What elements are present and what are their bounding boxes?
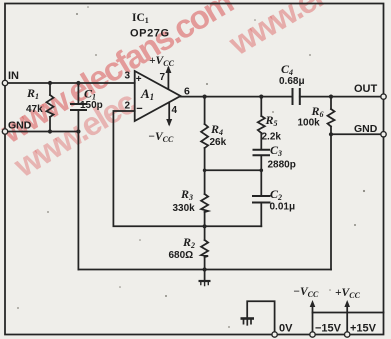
svg-text:6: 6 bbox=[184, 86, 190, 98]
svg-text:330k: 330k bbox=[173, 203, 196, 214]
svg-text:3: 3 bbox=[125, 71, 131, 82]
svg-text:26k: 26k bbox=[210, 137, 227, 148]
svg-text:2880p: 2880p bbox=[268, 160, 296, 171]
svg-text:100k: 100k bbox=[298, 118, 321, 129]
svg-text:GND: GND bbox=[354, 123, 378, 135]
svg-text:IN: IN bbox=[8, 70, 19, 82]
svg-text:−15V: −15V bbox=[315, 323, 342, 335]
svg-text:0V: 0V bbox=[279, 323, 293, 335]
svg-text:OUT: OUT bbox=[354, 83, 378, 95]
svg-text:0.01μ: 0.01μ bbox=[270, 202, 296, 213]
svg-text:+: + bbox=[136, 74, 142, 85]
svg-text:47k: 47k bbox=[26, 104, 43, 115]
svg-text:+15V: +15V bbox=[350, 323, 377, 335]
svg-text:7: 7 bbox=[160, 72, 166, 83]
svg-text:GND: GND bbox=[8, 120, 32, 132]
svg-text:680Ω: 680Ω bbox=[169, 250, 194, 261]
svg-text:2: 2 bbox=[125, 101, 131, 112]
svg-text:OP27G: OP27G bbox=[130, 28, 170, 40]
svg-text:−: − bbox=[136, 103, 142, 115]
svg-text:2.2k: 2.2k bbox=[262, 132, 282, 143]
svg-text:4: 4 bbox=[172, 105, 178, 116]
svg-text:0.68μ: 0.68μ bbox=[279, 76, 305, 87]
svg-text:150p: 150p bbox=[80, 100, 103, 111]
